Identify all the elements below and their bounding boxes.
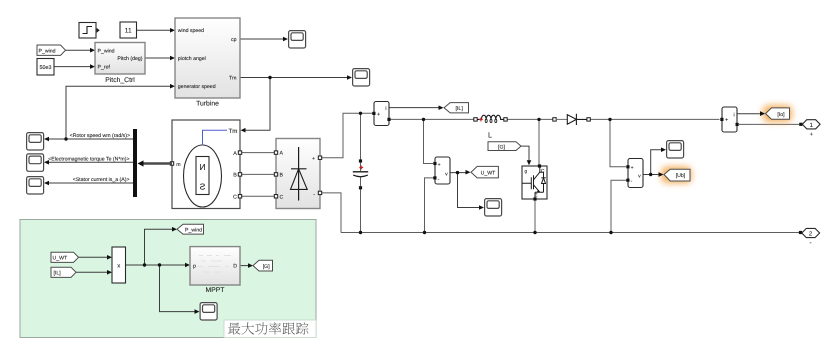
svg-text:[Ub]: [Ub] — [676, 173, 686, 179]
svg-text:P_wind: P_wind — [185, 228, 202, 234]
svg-text:L: L — [488, 131, 492, 140]
svg-text:P_wind: P_wind — [39, 48, 56, 54]
svg-text:N: N — [199, 162, 205, 172]
svg-text:generator speed: generator speed — [178, 84, 216, 90]
svg-text:g: g — [525, 169, 528, 174]
svg-text:C: C — [541, 169, 545, 175]
svg-text:m: m — [176, 162, 180, 168]
svg-text:MPPT: MPPT — [206, 287, 225, 294]
svg-text:+: + — [312, 156, 315, 162]
svg-text:Tm: Tm — [229, 128, 238, 135]
svg-text:U_WT: U_WT — [53, 255, 69, 261]
svg-text:+: + — [438, 162, 441, 168]
svg-text:i: i — [385, 106, 386, 112]
svg-text:<Electromagnetic torque Te (N*: <Electromagnetic torque Te (N*m)> — [48, 156, 129, 162]
svg-text:-: - — [313, 192, 315, 198]
svg-text:+: + — [810, 132, 814, 138]
svg-text:A: A — [280, 151, 284, 157]
svg-text:-: - — [810, 239, 812, 246]
svg-text:[G]: [G] — [498, 144, 505, 150]
svg-text:<Stator current is_a (A)>: <Stator current is_a (A)> — [73, 177, 130, 183]
svg-text:Turbine: Turbine — [196, 101, 219, 108]
svg-text:11: 11 — [125, 28, 132, 35]
svg-text:Tm: Tm — [229, 76, 237, 82]
svg-text:p: p — [193, 264, 196, 270]
svg-text:S: S — [199, 182, 205, 192]
svg-text:[IL]: [IL] — [455, 106, 463, 112]
svg-text:+: + — [631, 165, 634, 171]
svg-text:P_wind: P_wind — [98, 48, 115, 54]
svg-text:+: + — [725, 117, 728, 123]
svg-text:B: B — [280, 172, 284, 178]
svg-text:A: A — [233, 151, 237, 157]
svg-text:C: C — [233, 195, 237, 201]
svg-text:i: i — [734, 112, 735, 118]
svg-text:Pitch (deg): Pitch (deg) — [117, 56, 142, 62]
svg-text:+: + — [377, 112, 380, 118]
svg-text:Pitch_Ctrl: Pitch_Ctrl — [105, 77, 135, 84]
svg-text:50e3: 50e3 — [40, 65, 52, 71]
svg-text:v: v — [445, 172, 448, 178]
svg-text:<Rotor speed wm (rad/s)>: <Rotor speed wm (rad/s)> — [70, 133, 130, 139]
svg-text:v: v — [638, 174, 641, 180]
svg-text:x: x — [117, 264, 120, 270]
svg-text:wind speed: wind speed — [178, 28, 204, 34]
svg-text:[G]: [G] — [263, 264, 270, 270]
svg-text:[Io]: [Io] — [777, 112, 785, 118]
svg-text:B: B — [233, 173, 237, 179]
svg-text:C: C — [280, 194, 284, 200]
svg-text:cp: cp — [231, 37, 237, 43]
svg-text:P_ref: P_ref — [98, 65, 111, 71]
svg-text:piotch angel: piotch angel — [178, 56, 206, 62]
svg-text:U_WT: U_WT — [481, 170, 497, 176]
svg-text:[IL]: [IL] — [54, 270, 62, 276]
svg-text:D: D — [233, 264, 237, 270]
